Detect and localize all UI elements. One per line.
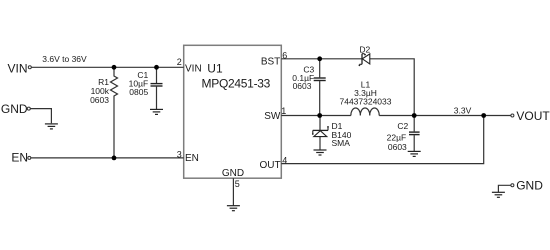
svg-text:OUT: OUT [259, 160, 280, 171]
svg-text:BST: BST [261, 57, 280, 68]
svg-text:0603: 0603 [388, 142, 407, 152]
svg-text:C2: C2 [397, 121, 408, 131]
svg-text:3.3V: 3.3V [454, 105, 472, 115]
svg-text:0603: 0603 [90, 95, 109, 105]
svg-text:5: 5 [235, 179, 240, 189]
svg-text:3.6V to 36V: 3.6V to 36V [42, 54, 87, 64]
svg-text:SW: SW [264, 111, 281, 122]
svg-text:4: 4 [282, 155, 287, 165]
svg-text:0603: 0603 [293, 81, 312, 91]
svg-text:MPQ2451-33: MPQ2451-33 [202, 77, 271, 91]
svg-text:VOUT: VOUT [516, 109, 550, 123]
svg-text:6: 6 [282, 50, 287, 60]
svg-text:GND: GND [1, 102, 28, 116]
svg-text:22µF: 22µF [387, 133, 407, 143]
svg-text:SMA: SMA [332, 138, 351, 148]
svg-text:3: 3 [177, 149, 182, 159]
svg-text:GND: GND [516, 179, 543, 193]
svg-text:D2: D2 [359, 44, 370, 54]
svg-text:VIN: VIN [185, 63, 202, 74]
svg-text:U1: U1 [207, 62, 223, 76]
svg-text:EN: EN [11, 151, 28, 165]
svg-text:1: 1 [281, 106, 286, 116]
svg-text:2: 2 [177, 57, 182, 67]
svg-text:74437324033: 74437324033 [339, 97, 391, 107]
svg-text:EN: EN [185, 153, 199, 164]
svg-text:VIN: VIN [7, 61, 27, 75]
svg-text:GND: GND [222, 168, 244, 179]
svg-text:0805: 0805 [129, 87, 148, 97]
